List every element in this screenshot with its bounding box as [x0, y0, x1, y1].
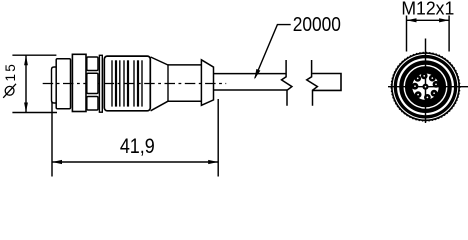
- front view crosshair horizontal: [388, 86, 468, 88]
- M12x1 arrow left: [407, 18, 417, 22]
- dim 41,9 line: [52, 161, 218, 163]
- centerline side view: [43, 83, 227, 85]
- connector front ring: [56, 59, 70, 109]
- leader 20000: [255, 25, 291, 78]
- front view knurl bumps: [391, 52, 460, 121]
- coupling nut front flange: [72, 54, 86, 111]
- svg-text:15: 15: [3, 62, 18, 82]
- contact pin 2: [431, 90, 438, 97]
- knurled grip body: [104, 56, 150, 111]
- contact pin 6: [414, 75, 421, 82]
- front view crosshair vertical: [425, 39, 427, 124]
- dia15 label symbol: [5, 86, 14, 95]
- contact pin 3: [424, 94, 431, 101]
- M12x1 extension right: [448, 16, 450, 52]
- cable break 1: [282, 60, 292, 106]
- dia15 arrow down: [24, 103, 28, 113]
- M12x1 extension left: [406, 16, 408, 52]
- contact pin 1: [433, 81, 440, 88]
- leader arrowhead: [254, 69, 260, 80]
- taper shoulder: [151, 57, 168, 65]
- washer ring: [99, 55, 102, 112]
- contact pin 4: [415, 91, 422, 98]
- M12x1 arrow right: [439, 18, 449, 22]
- dia15 dimension line: [25, 55, 27, 112]
- front view outer ring: [391, 52, 460, 121]
- contact pin 8: [429, 75, 436, 82]
- dim 41,9 extension right: [217, 99, 219, 177]
- cable bottom line: [214, 89, 288, 91]
- dim 41,9 arrow left: [52, 160, 62, 164]
- contact pin 5: [412, 83, 419, 90]
- front view inner ring: [405, 66, 446, 107]
- contact pin 7: [421, 73, 428, 80]
- svg-text:41,9: 41,9: [120, 135, 155, 159]
- cable stub: [312, 74, 341, 91]
- dim 41,9 arrow right: [208, 160, 218, 164]
- hex flat middle: [87, 73, 98, 93]
- svg-text:20000: 20000: [293, 14, 341, 37]
- cable break 2: [307, 60, 318, 106]
- M12x1 dim line: [407, 19, 450, 21]
- hex flat bottom: [87, 97, 98, 111]
- taper junction line: [167, 65, 169, 101]
- dia15 extension line top: [12, 54, 56, 56]
- cable boot: [201, 60, 213, 106]
- center contact pin: [422, 84, 428, 90]
- neck: [168, 64, 201, 66]
- dim 41,9 extension left: [51, 102, 53, 177]
- dia15 extension line bottom: [12, 112, 57, 114]
- knurl lines: [112, 60, 142, 106]
- connector tip ring: [52, 67, 57, 103]
- dia15 arrow up: [24, 55, 28, 65]
- hex flat top: [87, 57, 98, 71]
- front view ring 2: [394, 55, 458, 119]
- svg-text:M12x1: M12x1: [401, 0, 454, 19]
- cable top line: [214, 73, 287, 75]
- front view ring 3: [399, 60, 452, 113]
